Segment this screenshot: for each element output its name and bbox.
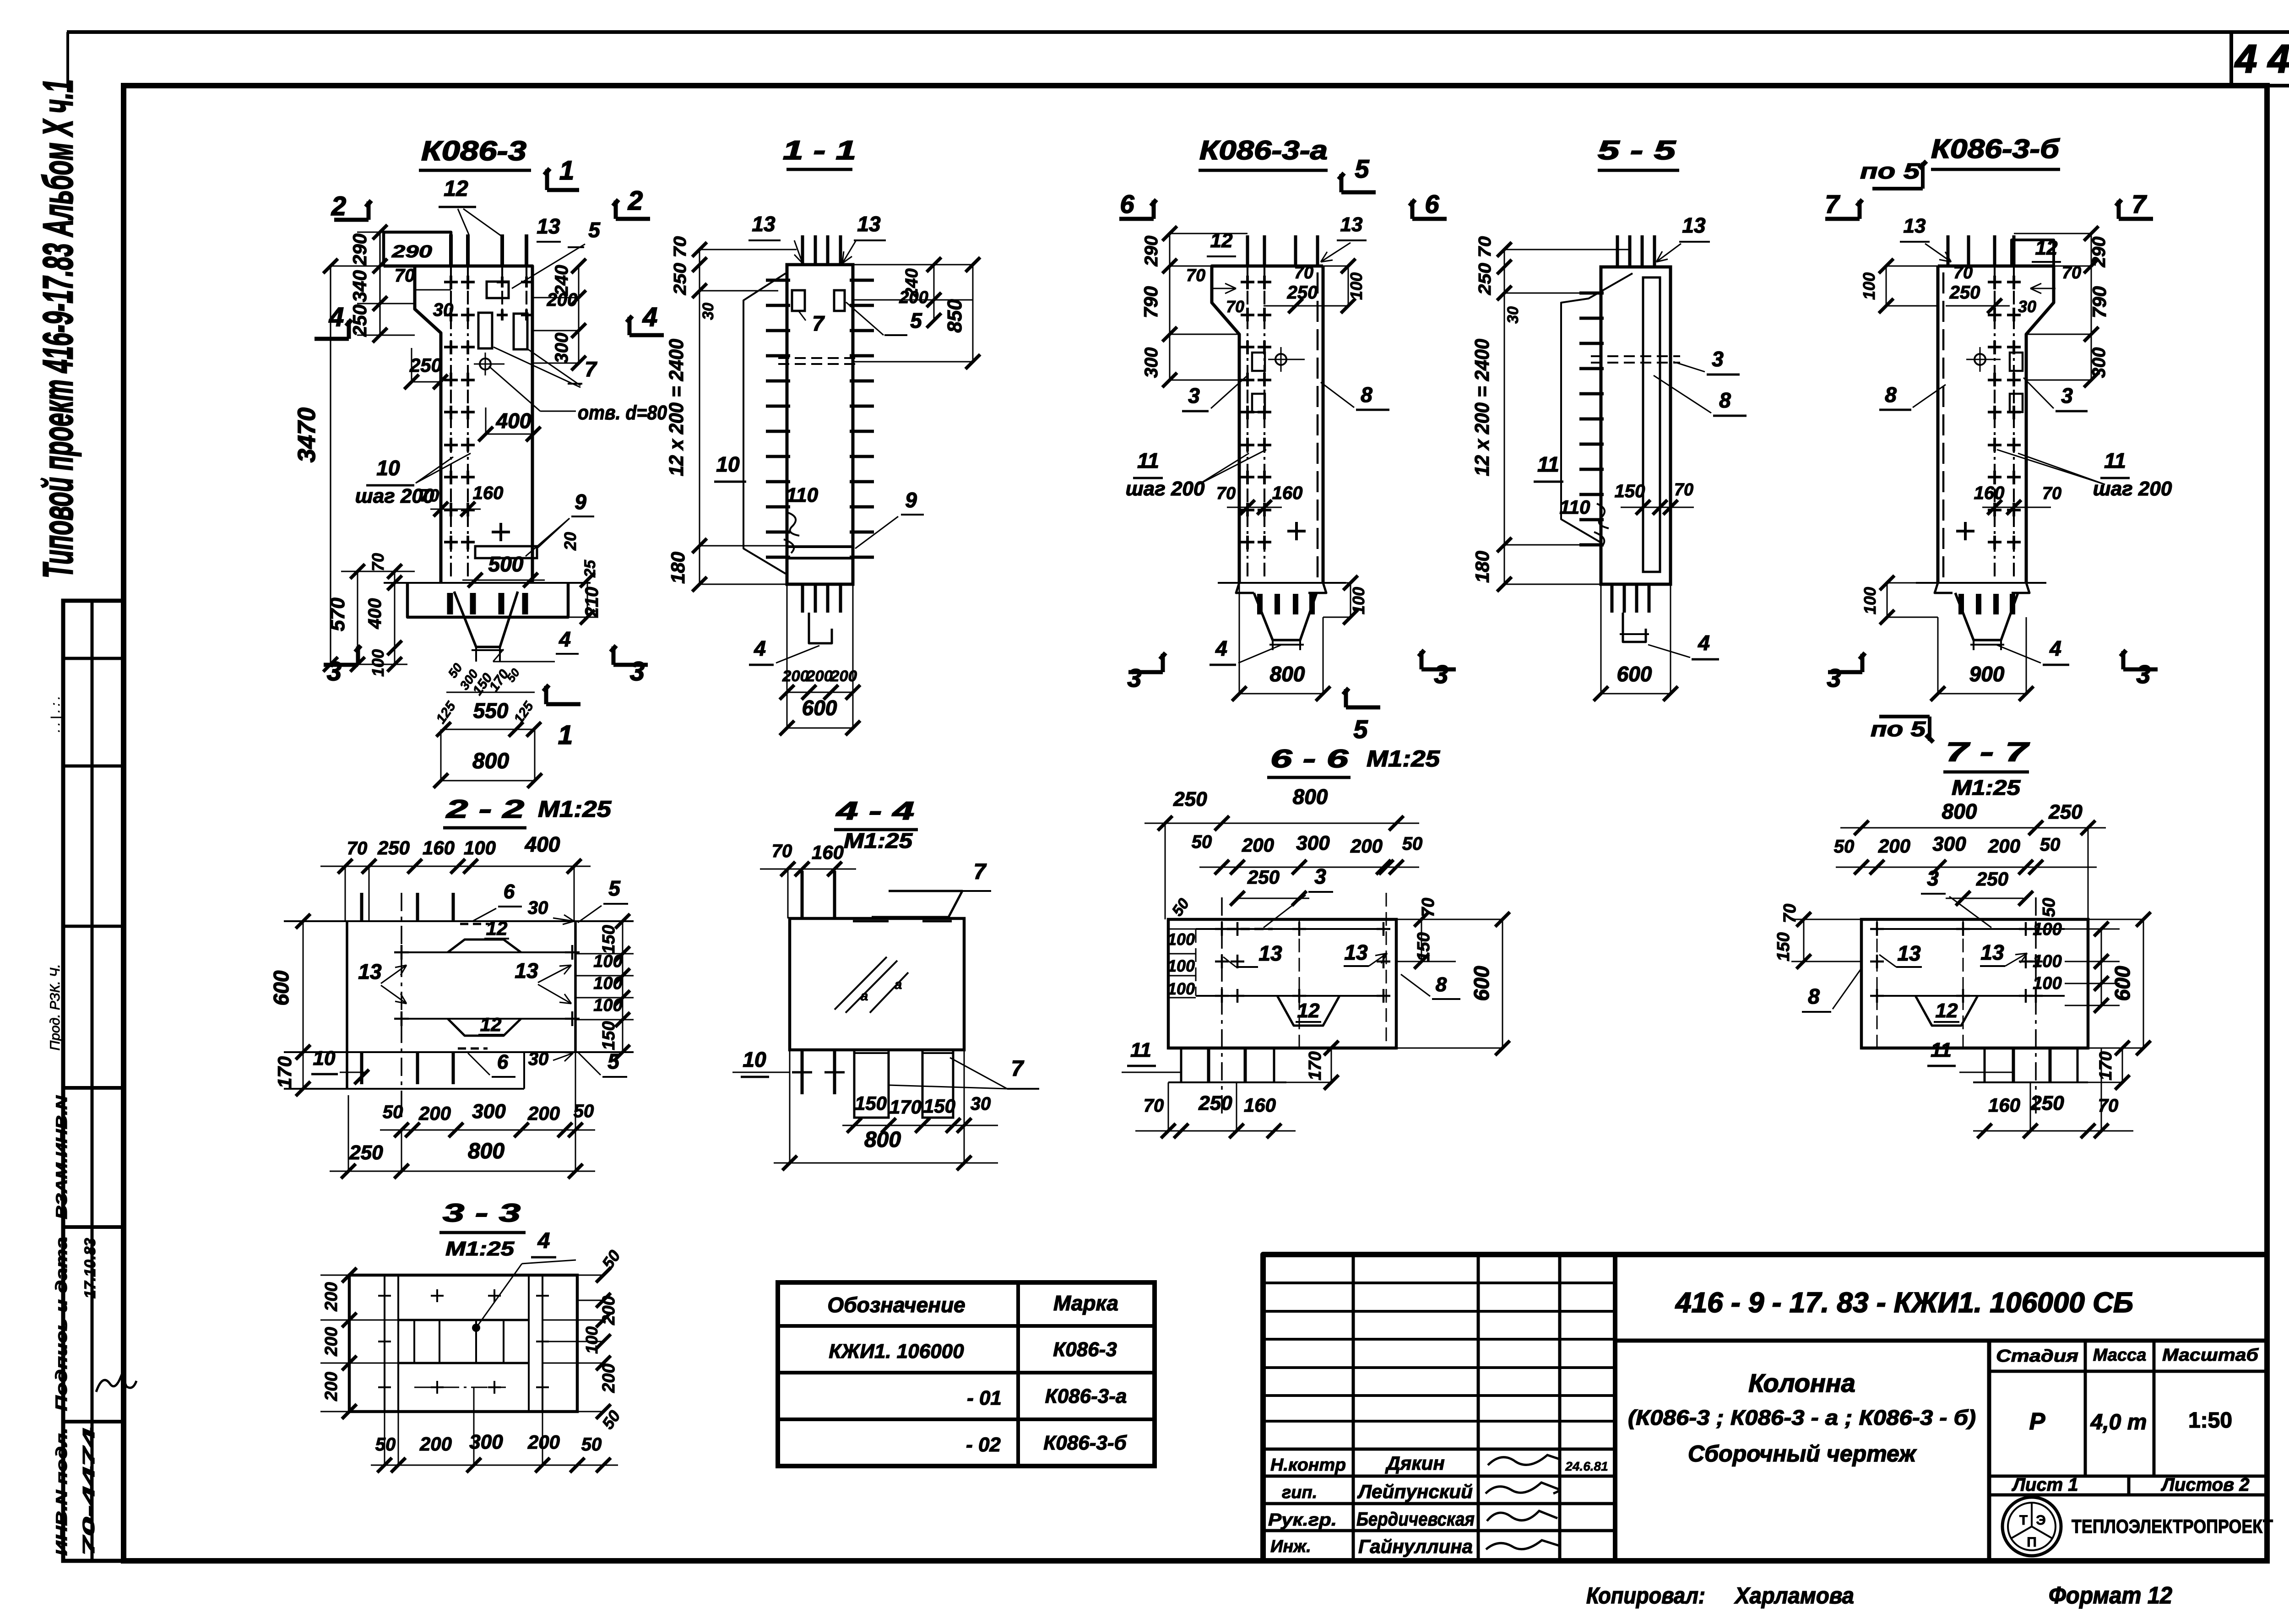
view K086-3-b plus mark	[1956, 530, 1974, 532]
view K086-3-b dim 100 top-left	[1886, 266, 1887, 306]
svg-text:4: 4	[537, 1229, 550, 1253]
svg-text:8: 8	[1436, 973, 1447, 996]
svg-text:290: 290	[1141, 236, 1161, 267]
svg-text:3: 3	[630, 657, 645, 686]
svg-text:70: 70	[1780, 904, 1800, 923]
svg-text:200: 200	[527, 1103, 560, 1124]
view 1-1 top protruding bars	[801, 235, 804, 265]
svg-text:13: 13	[1980, 940, 2004, 964]
svg-text:К086-3-б: К086-3-б	[1931, 134, 2060, 164]
svg-text:100: 100	[593, 996, 622, 1015]
view K086-3-a small plates	[1252, 353, 1265, 371]
svg-text:4,0 т: 4,0 т	[2090, 1410, 2147, 1434]
svg-text:5: 5	[588, 218, 601, 242]
svg-text:170: 170	[1306, 1051, 1325, 1080]
view K086-3-a section flag 6 left	[1119, 217, 1154, 221]
svg-text:3: 3	[1314, 864, 1326, 888]
sidebar box vertical split	[91, 601, 94, 1561]
svg-text:Масштаб: Масштаб	[2162, 1346, 2259, 1365]
section 7-7 dim 170	[2122, 1048, 2123, 1082]
svg-text:200: 200	[419, 1433, 452, 1455]
svg-text:30: 30	[528, 898, 548, 918]
section 3-3 inner box	[398, 1319, 529, 1321]
svg-text:Обозначение: Обозначение	[827, 1293, 965, 1317]
svg-text:12 х 200 = 2400: 12 х 200 = 2400	[665, 339, 688, 476]
svg-text:9: 9	[575, 490, 586, 514]
svg-text:3 - 3: 3 - 3	[443, 1198, 521, 1227]
svg-text:6: 6	[1120, 190, 1134, 218]
svg-text:50: 50	[581, 1434, 602, 1455]
svg-text:400: 400	[496, 409, 532, 433]
svg-text:Лейпунский: Лейпунский	[1357, 1481, 1473, 1502]
svg-text:250: 250	[1247, 866, 1280, 888]
section 2-2 bottom strip	[284, 1088, 524, 1090]
section 7-7 vertical dash lines	[1877, 919, 1878, 1048]
svg-text:13: 13	[1344, 940, 1368, 964]
svg-text:50: 50	[375, 1434, 396, 1455]
svg-text:Лист 1: Лист 1	[2011, 1475, 2078, 1495]
svg-text:6: 6	[497, 1051, 509, 1073]
svg-text:300: 300	[1296, 832, 1330, 854]
view K086-3 section flag 4 left	[315, 337, 349, 341]
svg-text:М1:25: М1:25	[445, 1238, 515, 1260]
view K086-3 overall dim 3470	[330, 266, 331, 664]
section 7-7 plus marks	[1870, 928, 1884, 930]
view K086-3-b flag po5 bottom	[1879, 715, 1930, 718]
designation table column divider	[1016, 1282, 1020, 1466]
svg-text:3: 3	[2136, 660, 2150, 689]
section 6-6 dashed top segment	[1227, 928, 1273, 930]
svg-text:570: 570	[326, 597, 349, 631]
view K086-3-b dim 100 bottom-left	[1887, 583, 1888, 617]
svg-text:13: 13	[358, 960, 382, 983]
svg-text:170: 170	[890, 1096, 922, 1118]
svg-text:Подпись и дата: Подпись и дата	[53, 1237, 71, 1411]
svg-text:100: 100	[1167, 930, 1195, 949]
section 2-2 trapezoid 12 bottom	[448, 1019, 521, 1036]
svg-text:70: 70	[2062, 263, 2081, 282]
section 4-4 top notches	[853, 920, 889, 923]
sidebar box row line y2376	[63, 1086, 123, 1090]
svg-text:ВЗАМ.ИНВ.N: ВЗАМ.ИНВ.N	[53, 1095, 71, 1219]
svg-text:300: 300	[552, 333, 572, 364]
svg-text:290: 290	[391, 242, 432, 261]
svg-text:150: 150	[599, 925, 618, 954]
svg-text:250 70: 250 70	[1475, 236, 1495, 295]
svg-text:11: 11	[1130, 1039, 1151, 1061]
view 1-1 right chain 240 200 850	[933, 265, 935, 320]
svg-text:100: 100	[1349, 587, 1368, 614]
view K086-3-a section flag 3 bottom-right	[1421, 668, 1456, 672]
svg-text:М1:25: М1:25	[1952, 776, 2021, 799]
section 6-6 plus marks grid	[1215, 928, 1229, 930]
section 7-7 trapezoid 12	[1915, 996, 1978, 1026]
svg-text:Т: Т	[2019, 1513, 2028, 1528]
view K086-3-b hole	[1974, 354, 1985, 365]
designation table row lines	[778, 1324, 1155, 1328]
view K086-3-b small plates	[2010, 353, 2023, 371]
svg-text:9: 9	[905, 488, 917, 512]
svg-text:160: 160	[1988, 1094, 2020, 1116]
svg-text:790: 790	[1140, 286, 1161, 318]
svg-text:гип.: гип.	[1282, 1483, 1317, 1502]
svg-text:П: П	[2027, 1535, 2037, 1550]
svg-text:70: 70	[1226, 297, 1244, 316]
svg-text:6 - 6: 6 - 6	[1270, 744, 1349, 773]
svg-text:416 - 9 - 17. 83 - КЖИ1. 1: 416 - 9 - 17. 83 - КЖИ1. 106000 СБ	[1675, 1287, 2133, 1319]
svg-text:800: 800	[468, 1139, 504, 1163]
designation table outline	[778, 1282, 1155, 1466]
view K086-3 footing block	[407, 583, 568, 617]
svg-text:250: 250	[2048, 801, 2083, 823]
svg-text:300: 300	[472, 1100, 506, 1123]
svg-text:600: 600	[802, 696, 837, 720]
svg-text:Стадия: Стадия	[1996, 1347, 2078, 1366]
svg-text:400: 400	[525, 832, 560, 856]
section 2-2 left dims 600 170	[303, 921, 304, 1052]
svg-text:200: 200	[527, 1431, 560, 1453]
svg-text:250: 250	[349, 304, 370, 337]
svg-text:100: 100	[369, 649, 387, 677]
svg-text:Р: Р	[2029, 1408, 2045, 1435]
svg-text:800: 800	[864, 1128, 901, 1152]
sheet page-number box	[2229, 32, 2233, 86]
svg-text:М1:25: М1:25	[1367, 746, 1440, 771]
svg-text:200: 200	[322, 1282, 341, 1311]
section 2-2 right chain 150 100x3 150	[575, 921, 634, 922]
view K086-3 embedded plate 5	[487, 282, 509, 298]
svg-text:12 х 200 = 2400: 12 х 200 = 2400	[1471, 339, 1493, 476]
svg-text:70: 70	[772, 841, 792, 861]
section 7-7 inner rect	[1877, 928, 2065, 930]
svg-text:850: 850	[944, 299, 966, 333]
svg-text:170: 170	[2096, 1051, 2115, 1080]
svg-text:Бердичевская: Бердичевская	[1356, 1508, 1475, 1530]
svg-text:600: 600	[269, 970, 293, 1005]
view 5-5 top protruding bars	[1616, 235, 1619, 267]
svg-text:10: 10	[313, 1047, 336, 1070]
svg-text:1: 1	[558, 720, 573, 750]
svg-text:150: 150	[1414, 932, 1433, 961]
svg-text:4 - 4: 4 - 4	[835, 796, 914, 825]
section 7-7 main rectangle	[1861, 919, 2088, 1048]
svg-text:200: 200	[806, 668, 833, 685]
svg-text:11: 11	[1931, 1039, 1952, 1061]
svg-text:30: 30	[433, 300, 454, 320]
svg-text:5: 5	[608, 876, 621, 900]
svg-text:150: 150	[1615, 481, 1645, 501]
svg-text:5: 5	[608, 1049, 620, 1073]
section 3-3 left dims 200x3	[349, 1275, 350, 1412]
view K086-3-a left chain 290 790 300	[1169, 234, 1171, 380]
svg-text:1 - 1: 1 - 1	[783, 136, 856, 165]
svg-text:800: 800	[472, 749, 509, 773]
section 6-6 inner rect	[1196, 928, 1383, 930]
section 2-2 bottom bars	[360, 1052, 363, 1084]
view K086-3 section flag 2 top-right	[616, 217, 650, 221]
svg-text:200: 200	[547, 290, 578, 310]
view 5-5 left chain 70 250 30 12x200 180	[1504, 250, 1505, 584]
view K086-3 section flag 1 bottom	[546, 702, 580, 706]
sidebar box row line y1438	[63, 657, 123, 660]
svg-text:50: 50	[1834, 836, 1855, 857]
view K086-3-a top protruding bars	[1246, 235, 1249, 266]
sidebar signature squiggle	[96, 1374, 136, 1392]
view K086-3-a dim 100 bottom right	[1350, 583, 1351, 617]
title block header row line	[1615, 1339, 2267, 1343]
svg-text:200: 200	[418, 1103, 451, 1124]
svg-text:70: 70	[1953, 263, 1973, 282]
svg-text:550: 550	[473, 699, 509, 722]
svg-text:12: 12	[2035, 237, 2058, 259]
section 6-6 bottom corbel step	[1168, 1047, 1396, 1050]
svg-text:Марка: Марка	[1053, 1291, 1118, 1315]
svg-text:100: 100	[1860, 587, 1879, 614]
svg-text:3: 3	[1827, 663, 1841, 692]
view K086-3-b section flag 7 right	[2119, 217, 2153, 221]
svg-text:7: 7	[1011, 1057, 1025, 1081]
svg-text:3: 3	[1927, 866, 1939, 890]
svg-text:12: 12	[444, 177, 468, 201]
svg-text:6: 6	[1425, 190, 1439, 218]
svg-text:8: 8	[1808, 984, 1820, 1008]
view K086-3 top console block	[384, 232, 451, 266]
svg-text:К086-3: К086-3	[1053, 1338, 1117, 1361]
section 4-4 plate 7 parallelogram	[872, 891, 962, 917]
sidebar box row line y3105	[63, 1420, 123, 1423]
view K086-3-a hole	[1275, 354, 1286, 365]
svg-text:по 5: по 5	[1871, 717, 1926, 741]
view 5-5 channel slot	[1643, 277, 1660, 572]
svg-text:300: 300	[2089, 348, 2109, 378]
view K086-3-a rebar lines	[1247, 266, 1248, 577]
section 6-6 dim 170	[1331, 1048, 1332, 1082]
section 6-6 main rectangle	[1168, 919, 1396, 1048]
svg-text:Харламова: Харламова	[1734, 1583, 1854, 1608]
sidebar box row line y1673	[63, 765, 123, 768]
svg-text:Дякин: Дякин	[1385, 1452, 1444, 1474]
svg-text:1:50: 1:50	[2188, 1408, 2232, 1433]
svg-text:100: 100	[2033, 952, 2061, 971]
svg-text:50: 50	[1192, 832, 1212, 852]
svg-text:отв. d=80: отв. d=80	[578, 402, 667, 424]
svg-text:13: 13	[1897, 941, 1921, 965]
section 3-3 inner verticals	[413, 1320, 415, 1363]
svg-text:100: 100	[1167, 979, 1195, 998]
svg-text:70: 70	[1294, 263, 1313, 282]
view K086-3 rebar line B	[467, 266, 469, 579]
title block name box divider	[1987, 1341, 1991, 1561]
svg-text:200: 200	[322, 1372, 341, 1401]
section 6-6 trapezoid 12	[1277, 996, 1340, 1026]
svg-text:5 - 5: 5 - 5	[1598, 136, 1676, 165]
svg-text:12: 12	[480, 1014, 502, 1035]
svg-text:13: 13	[752, 212, 776, 236]
svg-text:(К086-3 ; К086-3 - а ; К086-3: (К086-3 ; К086-3 - а ; К086-3 - б)	[1628, 1406, 1976, 1429]
svg-text:К086-3-а: К086-3-а	[1045, 1385, 1127, 1407]
svg-text:М1:25: М1:25	[538, 796, 612, 822]
section 2-2 top bars	[360, 893, 363, 921]
view K086-3 right chain 240 200 300	[578, 266, 580, 363]
svg-text:200: 200	[899, 288, 928, 307]
view K086-3-b column outline	[1938, 266, 2054, 583]
svg-text:12: 12	[1210, 229, 1233, 252]
title block signature scribbles	[1488, 1455, 1561, 1465]
svg-text:30: 30	[2018, 297, 2036, 316]
svg-text:30: 30	[528, 1049, 549, 1069]
svg-text:110: 110	[1560, 496, 1590, 518]
svg-text:10: 10	[743, 1048, 766, 1071]
svg-text:8: 8	[1885, 383, 1897, 407]
svg-text:70: 70	[369, 553, 387, 571]
svg-text:250: 250	[349, 1141, 383, 1164]
svg-text:3: 3	[1434, 660, 1448, 689]
view 1-1 plate 5 inside	[834, 290, 845, 311]
section 4-4 bottom-left bars	[801, 1050, 804, 1094]
section 2-2 inner lines	[397, 951, 575, 953]
svg-text:50: 50	[2040, 835, 2061, 855]
svg-text:4 4: 4 4	[2234, 37, 2289, 81]
svg-text:100: 100	[593, 952, 622, 971]
svg-text:100: 100	[1167, 956, 1195, 975]
svg-text:30: 30	[971, 1094, 991, 1114]
view K086-3 head bars	[501, 266, 503, 320]
svg-text:3: 3	[2061, 384, 2073, 407]
svg-text:150: 150	[1774, 932, 1793, 961]
view K086-3-b right chain 290 790 300	[2091, 234, 2092, 380]
view K086-3 section flag 4 right	[629, 333, 664, 337]
section 4-4 diagonal weld hatch	[835, 957, 887, 1010]
svg-text:а: а	[895, 977, 902, 992]
view K086-3 footing glass trapezoid	[454, 592, 518, 647]
svg-text:20: 20	[561, 532, 580, 551]
svg-text:Прод. РЗК. Ч.: Прод. РЗК. Ч.	[48, 964, 63, 1050]
section 3-3 vertical double lines right	[528, 1275, 530, 1412]
svg-text:11: 11	[1137, 449, 1159, 473]
svg-text:70: 70	[1216, 484, 1236, 503]
svg-text:50: 50	[574, 1101, 594, 1121]
svg-text:Листов 2: Листов 2	[2160, 1475, 2249, 1495]
view K086-3 section flag 3 bottom-left	[324, 663, 358, 667]
svg-text:7 - 7: 7 - 7	[1946, 737, 2030, 767]
svg-text:160: 160	[473, 483, 504, 503]
view K086-3-b top protruding bars	[1947, 235, 1950, 266]
svg-text:7: 7	[585, 357, 597, 381]
section 4-4 top bars	[801, 871, 804, 918]
svg-text:600: 600	[2110, 966, 2134, 1001]
svg-text:шаг 200: шаг 200	[2093, 478, 2172, 500]
svg-text:800: 800	[1293, 785, 1328, 809]
section 2-2 dashed plate 6 top	[460, 923, 489, 925]
svg-text:Инж.: Инж.	[1270, 1537, 1311, 1556]
view K086-3-a footing teeth	[1257, 594, 1263, 614]
svg-text:13: 13	[1904, 215, 1926, 237]
view 1-1 dashed section line	[778, 357, 861, 359]
view K086-3-a section flag 5 bottom	[1346, 706, 1380, 710]
svg-text:30: 30	[1504, 306, 1522, 324]
svg-text:200: 200	[1878, 835, 1910, 857]
svg-text:5: 5	[1355, 154, 1369, 183]
svg-text:ИНВ.N подл.: ИНВ.N подл.	[53, 1428, 71, 1556]
view K086-3-a channel 8 dash line	[1317, 272, 1319, 578]
svg-text:500: 500	[488, 552, 524, 576]
svg-text:К086-3-б: К086-3-б	[1043, 1432, 1127, 1454]
svg-text:70: 70	[1144, 1096, 1164, 1116]
svg-text:КЖИ1. 106000: КЖИ1. 106000	[829, 1340, 964, 1363]
svg-text:100: 100	[464, 837, 496, 858]
svg-text:290: 290	[2089, 237, 2109, 268]
svg-text:250: 250	[1198, 1092, 1232, 1114]
svg-text:150: 150	[923, 1095, 955, 1117]
svg-text:4: 4	[754, 636, 766, 660]
svg-text:110: 110	[786, 484, 819, 506]
svg-text:100: 100	[1860, 272, 1878, 300]
svg-text:600: 600	[1470, 966, 1493, 1001]
section 4-4 square	[790, 918, 964, 1050]
section 3-3 plus marks	[378, 1295, 391, 1297]
svg-text:250: 250	[2030, 1092, 2064, 1114]
svg-text:а: а	[861, 989, 868, 1004]
svg-text:3470: 3470	[293, 407, 320, 462]
sheet outer left border stub	[66, 32, 69, 86]
section 4-4 channel 7 bottom left	[854, 1050, 889, 1118]
svg-text:250: 250	[1976, 868, 2008, 890]
section 3-3 vertical double lines left	[384, 1275, 385, 1412]
svg-text:7: 7	[812, 311, 825, 335]
svg-text:250 70: 250 70	[671, 236, 690, 295]
view K086-3-b rebar lines	[1994, 266, 1996, 577]
view K086-3 rebar line A	[450, 266, 452, 579]
svg-text:6: 6	[504, 880, 515, 903]
svg-text:160: 160	[1244, 1094, 1276, 1116]
svg-text:800: 800	[1270, 662, 1305, 686]
svg-text:70: 70	[1186, 266, 1205, 285]
svg-text:Колонна: Колонна	[1748, 1369, 1855, 1397]
svg-text:3: 3	[1712, 347, 1724, 371]
view K086-3-a dim 100 right	[1348, 266, 1349, 306]
section 6-6 bottom bars	[1207, 1048, 1210, 1082]
view 1-1 column body	[787, 265, 853, 584]
view K086-3 dim 400	[486, 434, 533, 435]
svg-text:600: 600	[1617, 662, 1652, 686]
sidebar box row line y2680	[63, 1225, 123, 1229]
svg-text:300: 300	[1141, 348, 1161, 378]
view K086-3 dim 250 mid	[412, 381, 440, 383]
svg-text:170: 170	[274, 1056, 295, 1088]
title block stadia massa masshtab headers	[2084, 1341, 2087, 1476]
svg-text:24.6.81: 24.6.81	[1565, 1459, 1608, 1473]
svg-text:4: 4	[642, 302, 657, 332]
section 7-7 bottom corbel step	[1861, 1047, 2088, 1050]
svg-text:1: 1	[559, 156, 574, 185]
svg-text:- 01: - 01	[967, 1387, 1002, 1409]
svg-text:К086-3-а: К086-3-а	[1199, 136, 1328, 165]
svg-text:7: 7	[974, 860, 987, 884]
view 1-1 plate 9 band	[787, 545, 853, 548]
svg-text:290: 290	[349, 234, 370, 266]
svg-text:13: 13	[1340, 213, 1363, 236]
svg-text:340: 340	[349, 270, 370, 302]
svg-text:10: 10	[376, 456, 400, 480]
svg-text:160: 160	[423, 837, 455, 858]
svg-text:70: 70	[347, 838, 368, 858]
view K086-3 label 20 25 210 right chain	[587, 580, 588, 617]
svg-text:4: 4	[1215, 636, 1227, 660]
svg-text:250: 250	[1173, 788, 1207, 810]
svg-text:300: 300	[1932, 833, 1966, 855]
view 1-1 bottom part	[801, 584, 804, 613]
svg-text:8: 8	[1719, 388, 1731, 412]
